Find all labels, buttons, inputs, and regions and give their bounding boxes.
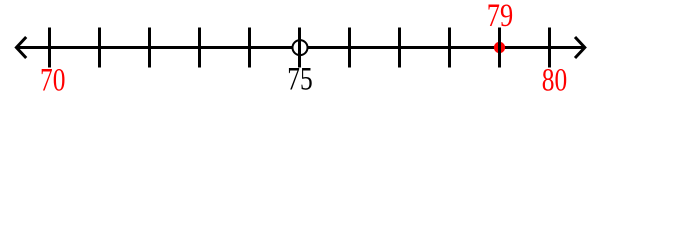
svg-text:80: 80 — [542, 62, 567, 98]
svg-text:70: 70 — [40, 62, 65, 98]
svg-text:79: 79 — [487, 0, 513, 34]
svg-text:75: 75 — [287, 61, 312, 97]
